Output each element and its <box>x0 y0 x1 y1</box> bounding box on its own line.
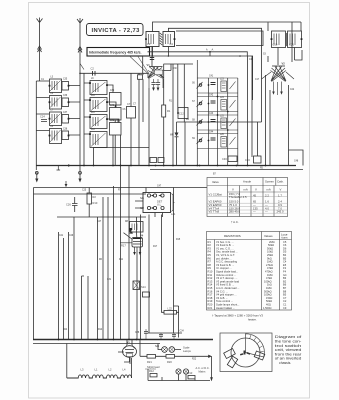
wire right horizontal y150 <box>289 150 304 166</box>
svg-text:R22: R22 <box>192 359 197 361</box>
wire right drop x268 <box>267 22 269 31</box>
svg-text:C19: C19 <box>273 43 278 47</box>
capacitor C42 row2 <box>211 101 216 103</box>
capacitor C44 row4 <box>211 138 216 140</box>
callout pointer to V1 <box>130 57 150 75</box>
scattered component value labels <box>41 49 299 361</box>
wire main bus y165.5 <box>36 165 296 167</box>
svg-text:S6: S6 <box>192 83 196 85</box>
wires under transformer <box>268 48 302 66</box>
svg-text:C12: C12 <box>179 112 184 116</box>
svg-text:C2: C2 <box>91 67 95 71</box>
svg-text:C47: C47 <box>157 186 162 188</box>
svg-text:L12: L12 <box>91 129 96 131</box>
svg-text:—: — <box>253 210 256 214</box>
svg-text:R8: R8 <box>125 221 129 223</box>
svg-text:L26: L26 <box>220 134 225 136</box>
svg-text:C21: C21 <box>289 43 294 47</box>
svg-text:C39: C39 <box>110 90 115 92</box>
svg-text:A: A <box>206 49 208 52</box>
svg-text:C26: C26 <box>66 203 71 207</box>
svg-text:L24: L24 <box>220 97 225 99</box>
svg-text:MR: MR <box>170 135 174 137</box>
svg-text:Thereafter 4.5: Thereafter 4.5 <box>229 195 247 199</box>
svg-text:S21: S21 <box>140 198 145 200</box>
svg-text:L25: L25 <box>220 116 225 118</box>
wire x113.5 <box>113 186 115 340</box>
IF transformer box above V4 <box>130 222 144 233</box>
svg-text:heater.: heater. <box>248 318 257 322</box>
junction dots y56 <box>152 55 241 57</box>
svg-text:S3: S3 <box>263 54 267 56</box>
wire lattice verticals <box>197 60 238 166</box>
capacitor C11 below V1 <box>156 83 160 85</box>
wire rail x177.8 <box>177 64 179 112</box>
title box INVICTA - 72,73 <box>87 24 144 36</box>
component box S14 <box>133 281 146 290</box>
svg-text:S24: S24 <box>155 346 160 348</box>
svg-text:R1: R1 <box>169 101 173 103</box>
mains lamp 2 <box>183 369 188 374</box>
wiper arrow on y187.5 line <box>65 181 68 187</box>
svg-text:R13: R13 <box>188 371 193 375</box>
wire x173.5 <box>173 188 175 334</box>
svg-text:S2(H) lead: S2(H) lead <box>147 365 160 369</box>
wire x58.5 <box>58 232 60 340</box>
wire top loop outer <box>153 22 302 62</box>
svg-text:—: — <box>265 210 268 214</box>
wire verticals below stacks <box>94 135 121 166</box>
svg-text:L9: L9 <box>91 78 94 80</box>
wire A1 lead <box>39 27 41 81</box>
stack connections <box>84 83 90 134</box>
capacitor C31 box on grid line <box>138 75 143 80</box>
svg-text:tions: tions <box>282 236 289 240</box>
svg-text:R14: R14 <box>98 329 103 331</box>
trimmer arrow row3 <box>230 119 236 127</box>
capacitor C41 row1 <box>211 83 216 85</box>
svg-text:B7: B7 <box>213 174 217 176</box>
svg-text:S9: S9 <box>192 138 196 140</box>
aerial plug symbol A2 <box>78 47 82 53</box>
capacitor C2 on grid line <box>91 67 96 76</box>
mains lamp 1 <box>176 369 181 374</box>
capacitor C16 <box>245 156 261 163</box>
padder box P1 <box>110 93 122 106</box>
switch bank S2 <box>143 193 171 213</box>
coil box L3 <box>90 115 107 129</box>
circle switch unit <box>231 338 260 367</box>
wire y217 <box>57 216 146 218</box>
wire y64 to right <box>164 63 194 65</box>
wire y194 <box>34 193 147 195</box>
wire lamps <box>158 344 181 350</box>
resistor R21 <box>147 355 156 365</box>
transformer secondary C21 box <box>288 31 302 48</box>
scale lamps <box>162 346 192 354</box>
terminal dots lattice <box>208 84 229 141</box>
wire left rail <box>35 81 37 170</box>
svg-text:L4: L4 <box>123 368 126 372</box>
svg-text:R1: R1 <box>167 109 171 113</box>
antenna A2 <box>77 18 83 28</box>
svg-text:C3: C3 <box>147 42 151 46</box>
valve V5 (rectifier bottom) <box>123 341 137 358</box>
svg-text:C7: C7 <box>133 104 137 106</box>
svg-text:S14: S14 <box>141 285 146 289</box>
svg-text:R21: R21 <box>147 360 152 364</box>
svg-text:V: V <box>255 188 257 192</box>
svg-text:C9: C9 <box>283 306 287 310</box>
wire bottom bus y343.5 <box>33 343 160 345</box>
svg-text:L22: L22 <box>168 307 173 311</box>
wire x129 <box>128 166 130 340</box>
wire grid line to V1 left vertex <box>146 73 148 78</box>
resistor R20 <box>166 355 175 365</box>
coil box L6 <box>50 96 62 110</box>
wire x185 rail <box>184 122 186 166</box>
svg-text:C42: C42 <box>209 95 214 97</box>
wire x97.5 <box>97 217 99 340</box>
wire y187.5 <box>34 187 208 189</box>
resistor box R19 on bus <box>158 158 164 163</box>
ground stub <box>57 166 61 171</box>
wire diagonal feed V4 <box>120 233 133 243</box>
field coils L3 L1 L2 L4 <box>67 368 132 379</box>
resistor R12 <box>149 369 157 377</box>
wire x142.7 drop <box>142 56 144 73</box>
switch contact row1 <box>199 84 202 87</box>
svg-text:Mains: Mains <box>199 370 207 374</box>
svg-text:V2: V2 <box>282 62 286 66</box>
svg-text:C43: C43 <box>209 113 214 115</box>
trimmer T6 <box>62 98 69 107</box>
svg-text:S22: S22 <box>140 208 145 210</box>
svg-text:A.C. or D.C.: A.C. or D.C. <box>196 366 210 370</box>
svg-text:S7: S7 <box>192 101 196 103</box>
svg-text:V1: V1 <box>147 63 151 67</box>
wafer lug left1 <box>224 349 236 359</box>
svg-text:C44: C44 <box>209 132 214 134</box>
wire right rails down <box>266 75 289 166</box>
transformer primary C19 box <box>272 31 286 48</box>
wire v x140 <box>139 340 141 357</box>
svg-text:S8: S8 <box>192 120 196 122</box>
diode D1 <box>175 133 179 137</box>
resistor box R18 on bus <box>150 158 157 163</box>
wire right rail A2 <box>79 73 81 171</box>
V4 pins with arrows <box>135 247 141 253</box>
terminal dots on coil boxes <box>49 38 303 136</box>
wafer lug left2 <box>227 356 237 368</box>
switch contact row3 <box>199 121 202 124</box>
wire v under C7 <box>130 73 132 165</box>
wire rail x163.7 <box>163 64 165 166</box>
arrow down right <box>210 377 213 381</box>
wire x88 down <box>87 276 89 340</box>
svg-text:C35: C35 <box>63 79 68 81</box>
coil zigzag core <box>160 33 162 45</box>
wire switch feeds <box>135 188 163 218</box>
svg-text:R11: R11 <box>119 259 124 261</box>
bracket L21 <box>171 194 176 217</box>
svg-text:C4: C4 <box>170 42 174 46</box>
svg-text:C41: C41 <box>209 76 214 78</box>
svg-text:C21: C21 <box>59 235 64 237</box>
wire x108 <box>107 197 109 340</box>
wire bus y51.8 <box>148 51 211 53</box>
svg-text:R20: R20 <box>167 360 172 364</box>
coupling coil box C4 <box>163 32 175 47</box>
svg-text:V5 TTx8: V5 TTx8 <box>209 210 220 214</box>
svg-text:† A.C.: † A.C. <box>231 220 239 224</box>
node A <box>209 48 213 53</box>
wire x140.5 <box>140 215 142 340</box>
coil L26 row4 <box>221 137 227 148</box>
wafer lug right <box>254 351 265 360</box>
svg-text:V: V <box>232 188 234 192</box>
trimmer T5 <box>62 82 69 91</box>
svg-text:245.0: 245.0 <box>277 210 284 214</box>
junction dots bottom bus <box>58 339 138 341</box>
coil box L2 <box>90 98 107 112</box>
V2 pin wires <box>274 82 282 96</box>
wire bottom mains y380.5 <box>148 369 210 381</box>
coil L24 row2 <box>221 100 227 111</box>
switch contact row2 <box>199 102 202 105</box>
svg-text:C7: C7 <box>127 102 131 106</box>
svg-text:1.7: 1.7 <box>278 194 282 198</box>
sector fan <box>246 334 265 357</box>
coil box L5 <box>50 79 62 93</box>
wire top loop inner <box>168 28 261 122</box>
svg-text:L3: L3 <box>81 368 84 372</box>
svg-text:RESISTORS: RESISTORS <box>224 234 241 238</box>
coil box L1 <box>90 81 107 95</box>
svg-text:2.2: 2.2 <box>265 194 269 198</box>
capacitor C32 <box>159 333 163 340</box>
arrow right heater <box>208 355 212 358</box>
resistor R1 <box>162 105 171 117</box>
svg-text:R17: R17 <box>121 244 126 248</box>
svg-text:C48: C48 <box>294 161 299 163</box>
wire y148 connector <box>94 147 150 149</box>
V1 pin wires <box>149 79 163 89</box>
svg-text:C24: C24 <box>40 115 45 119</box>
wire x120.5 <box>120 166 122 340</box>
svg-text:C29: C29 <box>69 235 74 237</box>
svg-text:Intermediate frequency 465 kc/: Intermediate frequency 465 kc/s. <box>89 51 141 55</box>
svg-text:L10: L10 <box>91 95 96 97</box>
svg-text:R17: R17 <box>153 246 158 248</box>
wire iron core marks <box>285 33 288 46</box>
wire x139 down <box>138 79 140 165</box>
arrow pin down 2 <box>157 88 160 92</box>
wire x81.5 <box>82 276 89 340</box>
row 1 frame <box>197 78 238 93</box>
svg-text:L6: L6 <box>51 93 54 95</box>
wire x103 <box>102 197 104 340</box>
wire y122 horizontal <box>177 121 262 123</box>
resistor R2 <box>87 193 98 205</box>
trimmer T7 <box>62 115 69 124</box>
svg-text:Scale: Scale <box>183 346 190 350</box>
capacitor C7 <box>127 102 136 118</box>
coil box L4 <box>90 132 107 148</box>
svg-text:R4: R4 <box>186 119 190 121</box>
svg-text:R12: R12 <box>149 369 154 373</box>
wire right area verticals <box>248 56 271 166</box>
svg-text:C37: C37 <box>63 112 68 114</box>
coil box L22 <box>164 307 177 315</box>
wire V1 cathode down <box>148 88 150 166</box>
capacitor C5 on top cap lead <box>150 58 154 60</box>
padder box P3 <box>110 123 122 136</box>
wire left frame x33.5 <box>33 188 35 340</box>
svg-text:C25: C25 <box>82 190 87 192</box>
svg-text:C36: C36 <box>63 95 68 97</box>
trimmer arrow row4 <box>230 137 236 145</box>
valve V2 (rectifier) <box>262 62 295 82</box>
wire rail x173 <box>172 64 174 166</box>
switch wiper arrow A2 rail <box>78 171 81 182</box>
valve V1 frequency changer <box>147 63 164 79</box>
wire loop right <box>131 358 133 378</box>
switch wiper arrow A1 rail <box>35 171 38 182</box>
stack connect wires left <box>36 81 49 131</box>
wire loop left <box>66 344 68 379</box>
svg-text:1,500Ω: 1,500Ω <box>263 306 271 310</box>
svg-text:C41: C41 <box>110 120 115 122</box>
row 2 frame <box>197 97 238 112</box>
svg-text:C38: C38 <box>63 129 68 131</box>
switch S1 <box>80 64 84 70</box>
IF label box: Intermediate frequency 465 kc/s <box>87 48 150 57</box>
aerial plug symbol A1 <box>38 46 42 52</box>
dial assembly long box <box>176 31 263 46</box>
wire below coupling boxes <box>153 47 169 57</box>
svg-text:C28: C28 <box>135 332 140 334</box>
wire V4 bottom <box>136 217 139 340</box>
svg-text:R21: R21 <box>208 306 213 310</box>
wire y56 <box>143 52 253 100</box>
wire y51.8 drop <box>210 52 247 56</box>
svg-text:R24: R24 <box>63 329 68 331</box>
svg-text:R15: R15 <box>176 239 181 241</box>
svg-text:C34: C34 <box>180 331 185 333</box>
svg-text:R6: R6 <box>99 259 103 261</box>
svg-text:C17: C17 <box>255 79 260 81</box>
wire main grid line y=73 <box>80 72 146 74</box>
wire V5 to bottom <box>118 352 130 364</box>
box <box>220 333 272 372</box>
svg-text:C31: C31 <box>107 279 112 281</box>
svg-text:R7: R7 <box>118 190 122 192</box>
coil box L8 <box>50 129 62 144</box>
svg-text:U.L.: U.L. <box>157 203 162 207</box>
svg-text:C15: C15 <box>249 59 254 61</box>
svg-text:L5: L5 <box>51 77 54 79</box>
svg-text:45: 45 <box>253 194 257 198</box>
svg-text:280 49.0: 280 49.0 <box>229 210 240 214</box>
wire y333 segment <box>148 332 182 334</box>
wire V5 top <box>124 340 132 363</box>
wire A2 lead <box>79 28 81 73</box>
svg-text:C30: C30 <box>173 68 178 70</box>
svg-text:mA: mA <box>267 188 271 192</box>
svg-text:L7: L7 <box>51 110 54 112</box>
switch contact row4 <box>199 139 202 142</box>
wire x68.5 <box>68 232 70 340</box>
svg-text:C22: C22 <box>290 89 295 91</box>
svg-text:mA: mA <box>244 188 248 192</box>
wire V1 top cap lead <box>151 47 153 67</box>
capacitor C28 bottom <box>144 329 148 340</box>
wire bus2 y169.5 <box>150 169 303 171</box>
aerial coupling coil box L? <box>146 32 159 47</box>
svg-text:Heater ballast ...: Heater ballast ... <box>216 306 235 310</box>
svg-text:C40: C40 <box>110 105 115 107</box>
svg-text:A: A <box>212 48 214 52</box>
valve V4 (output) <box>132 234 144 248</box>
wire x161.5 <box>161 215 163 311</box>
trimmer arrow row1 <box>230 82 236 90</box>
wire x63.5 <box>63 238 65 340</box>
wire R2 <box>88 188 90 218</box>
coil box L7 <box>50 112 62 126</box>
junction dots on bus <box>83 165 266 167</box>
capacitor C10 below V1 <box>151 83 155 85</box>
trimmer arrow row2 <box>230 100 236 108</box>
capacitor C12 box <box>177 108 188 119</box>
padder box P2 <box>110 108 122 121</box>
svg-text:Anode: Anode <box>243 180 252 184</box>
arrow pin down 1 <box>152 88 155 92</box>
stack connect wires right <box>69 86 81 136</box>
svg-text:C27: C27 <box>97 221 102 223</box>
svg-text:Valve: Valve <box>212 180 219 184</box>
capacitor C24 <box>40 115 47 122</box>
row 4 frame <box>197 134 238 149</box>
capacitor C33 <box>172 333 176 340</box>
label S2H lead <box>145 365 160 369</box>
coil L25 row3 <box>221 118 227 129</box>
resistor R13 <box>188 371 196 379</box>
bus arrow right <box>68 164 72 167</box>
svg-text:V1 CC/Bat: V1 CC/Bat <box>209 193 222 197</box>
wire L22 ends <box>162 306 179 338</box>
label AC or DC <box>196 366 210 374</box>
capacitor C43 row3 <box>211 120 216 122</box>
svg-text:chassis.: chassis. <box>279 361 291 365</box>
svg-text:Screen: Screen <box>265 180 274 184</box>
svg-text:L2: L2 <box>109 368 112 372</box>
svg-text:Values: Values <box>264 234 273 238</box>
wire x143 down <box>139 73 143 122</box>
wire bottom bus heavy y339.5 <box>33 339 213 341</box>
footnote tapped <box>212 314 263 322</box>
svg-text:INVICTA - 72,73: INVICTA - 72,73 <box>92 28 141 34</box>
svg-text:R10: R10 <box>93 201 98 205</box>
trimmer T8 <box>62 131 69 140</box>
V4 top cap blob <box>129 228 133 234</box>
antenna A1 <box>37 18 43 28</box>
wire x149 <box>148 215 150 334</box>
svg-text:L23: L23 <box>220 79 225 81</box>
wire y70 to right <box>164 64 172 71</box>
row 3 frame <box>197 115 238 130</box>
wire heater line y356.3 <box>140 355 209 357</box>
